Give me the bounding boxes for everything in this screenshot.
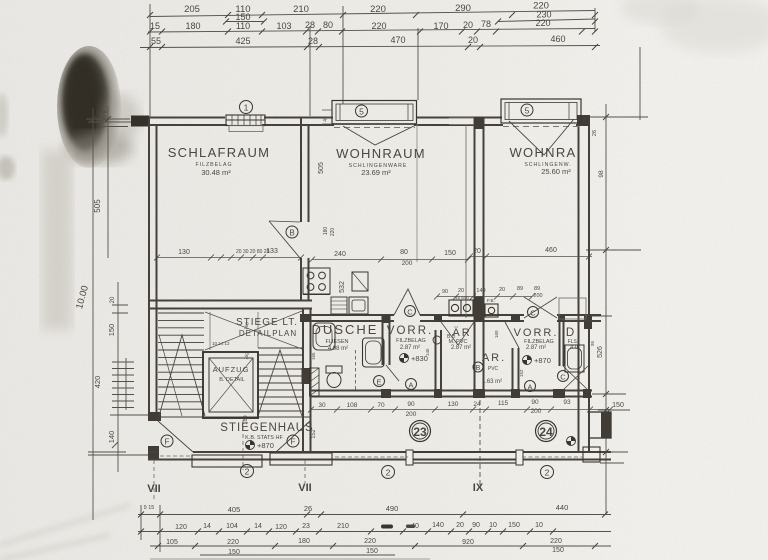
- left edge gray marks: [0, 93, 8, 137]
- window w3 number circle 5: [521, 104, 533, 116]
- svg-text:2: 2: [545, 468, 550, 478]
- svg-text:F.B.: F.B.: [487, 298, 495, 303]
- svg-text:205: 205: [184, 4, 200, 15]
- dim line row1b segment left: [226, 21, 264, 23]
- svg-text:200: 200: [531, 408, 542, 415]
- window w3 door swing: [509, 119, 574, 155]
- svg-text:SCHLAFRAUM: SCHLAFRAUM: [168, 145, 271, 160]
- vorr2 door swing from wohnra: [524, 297, 557, 318]
- party wall right line: [483, 117, 485, 396]
- bottom wall inner line: [148, 451, 611, 453]
- svg-text:10: 10: [535, 522, 543, 529]
- svg-text:2: 2: [386, 468, 391, 478]
- svg-text:420: 420: [93, 376, 102, 389]
- svg-text:C: C: [407, 308, 413, 317]
- svg-text:C: C: [530, 309, 536, 318]
- svg-text:24: 24: [539, 425, 553, 439]
- tick cross y452: [88, 442, 126, 452]
- window w2: [332, 101, 417, 125]
- svg-text:F: F: [291, 438, 296, 447]
- svg-text:210: 210: [337, 523, 349, 530]
- svg-text:120: 120: [275, 524, 287, 531]
- svg-text:90: 90: [442, 289, 448, 295]
- mid dim row over washers: [434, 294, 535, 300]
- mid wall H3 lower line: [310, 396, 592, 398]
- svg-text:180: 180: [298, 538, 310, 545]
- svg-text:A: A: [527, 383, 532, 392]
- tiny rotated dims middle rooms: [311, 330, 595, 377]
- ext line y394 right: [592, 393, 626, 395]
- svg-text:120: 120: [175, 524, 187, 531]
- schlafraum dim line: [154, 255, 304, 261]
- ar door swing: [505, 322, 519, 348]
- tick cross y126 short: [100, 126, 128, 128]
- svg-text:IX: IX: [473, 482, 484, 494]
- svg-text:10: 10: [489, 522, 497, 529]
- fridge box: [352, 272, 368, 291]
- dim line row1b segment right: [498, 19, 595, 22]
- right wall outer line: [588, 115, 590, 452]
- ext line y452 right: [611, 451, 628, 453]
- svg-text:VII: VII: [298, 482, 311, 494]
- bottom dim line rowD partial: [200, 554, 395, 556]
- dark smear marks rowB: [381, 525, 393, 529]
- svg-text:20: 20: [468, 35, 478, 45]
- party wall mid block: [474, 296, 485, 322]
- wall V7 vorr2-d inner: [563, 319, 565, 366]
- counter edge line: [303, 294, 330, 296]
- party wall inner thin line x466: [465, 125, 467, 318]
- junction dark blocks along H2/H3: [300, 314, 591, 398]
- shower tray in D: [565, 345, 584, 372]
- svg-text:14: 14: [254, 523, 262, 530]
- ext line y410 right tick: [598, 409, 630, 411]
- svg-text:526: 526: [597, 346, 604, 358]
- top wall inner line: [132, 124, 590, 126]
- svg-text:20: 20: [473, 248, 481, 255]
- svg-text:14: 14: [203, 523, 211, 530]
- svg-text:210: 210: [293, 4, 309, 15]
- svg-text:90: 90: [407, 401, 415, 408]
- svg-text:B.D: B.D: [447, 334, 456, 340]
- interior wall V1 outer: [300, 117, 302, 301]
- left wall outer line: [148, 118, 150, 422]
- left dim vline x118: [117, 282, 119, 472]
- svg-text:2.87 m²: 2.87 m²: [400, 345, 420, 351]
- svg-text:1: 1: [244, 103, 249, 113]
- stair landing diagonals: [205, 311, 302, 350]
- stiege right wall inner: [310, 308, 312, 452]
- aer door diagonals: [441, 322, 474, 345]
- svg-text:10 14 12: 10 14 12: [212, 341, 230, 346]
- wall V3 duschevorr inner: [389, 320, 391, 365]
- svg-text:STIEGENHAUS: STIEGENHAUS: [220, 422, 313, 434]
- svg-text:920: 920: [462, 539, 474, 546]
- svg-text:+870: +870: [534, 356, 551, 365]
- svg-text:108: 108: [347, 402, 358, 409]
- wall V3 duschevorr outer: [382, 320, 384, 365]
- svg-text:220: 220: [370, 4, 386, 15]
- column extension line x640: [639, 47, 641, 120]
- svg-text:DUSCHE: DUSCHE: [312, 322, 379, 337]
- window w3: [501, 99, 581, 123]
- stove box: [303, 268, 330, 294]
- svg-text:133: 133: [266, 248, 278, 255]
- left wall bottom corner block: [148, 446, 159, 459]
- counter hatched box: [331, 297, 347, 314]
- svg-text:200: 200: [402, 260, 413, 267]
- svg-text:AUFZUG: AUFZUG: [213, 365, 250, 374]
- svg-text:WOHNRAUM: WOHNRAUM: [336, 146, 426, 161]
- circled C vorr2-d: [558, 371, 569, 382]
- svg-text:220: 220: [371, 21, 386, 31]
- svg-text:290: 290: [455, 3, 471, 14]
- svg-text:80: 80: [323, 20, 333, 30]
- wohnraum dim line: [309, 257, 471, 263]
- stair direction triangle left: [159, 335, 205, 416]
- party wall head block: [474, 117, 485, 129]
- svg-text:470: 470: [390, 35, 405, 45]
- window w3 dashed sill: [503, 126, 579, 128]
- top wall left end cap: [131, 117, 133, 126]
- circled F left: [161, 435, 173, 447]
- circled A vorr2: [525, 381, 536, 392]
- svg-text:5: 5: [359, 107, 364, 117]
- level mark stiegenhaus: [246, 441, 274, 451]
- top wall outer line: [132, 117, 590, 119]
- niche outline above D room: [559, 298, 586, 319]
- mid wall H2 upper line: [300, 314, 601, 316]
- column extension line x595: [594, 8, 596, 32]
- svg-text:130: 130: [178, 249, 190, 256]
- bottom dim line rowC: [150, 545, 611, 547]
- svg-text:200: 200: [533, 293, 542, 299]
- right ticks: [603, 114, 609, 455]
- left wall inner line: [156, 125, 158, 421]
- svg-text:90: 90: [531, 399, 539, 406]
- dashed divider dusche: [355, 350, 357, 391]
- apartment number circle 24: [536, 421, 557, 442]
- svg-text:55: 55: [151, 36, 161, 46]
- bottom ticks rowB: [138, 529, 556, 535]
- stiege right wall outer: [302, 308, 304, 452]
- svg-text:140: 140: [432, 522, 444, 529]
- svg-text:26: 26: [592, 130, 598, 136]
- bathtub left horizontal: [313, 323, 335, 350]
- stair box bottom line: [157, 416, 310, 418]
- svg-text:20 8: 20 8: [103, 110, 109, 122]
- mid wall H3 upper line: [310, 390, 592, 392]
- mid wall H2 lower line: [300, 320, 601, 322]
- svg-text:25.60 m²: 25.60 m²: [541, 167, 571, 176]
- circled A vorr1: [406, 379, 417, 390]
- svg-text:78: 78: [481, 19, 491, 29]
- svg-text:152: 152: [311, 429, 317, 438]
- svg-text:405: 405: [228, 505, 241, 514]
- level mark vorr2: [523, 356, 551, 366]
- svg-text:220: 220: [227, 539, 239, 546]
- svg-text:200: 200: [406, 411, 417, 418]
- ext line y250 right: [586, 249, 641, 251]
- svg-text:95: 95: [590, 340, 595, 346]
- svg-text:89: 89: [517, 286, 523, 292]
- svg-text:220: 220: [535, 18, 550, 28]
- thin line under top wall gap x449-474: [449, 117, 474, 119]
- wall V7 vorr2-d outer: [559, 319, 561, 366]
- stiege right wall dark block: [302, 368, 312, 384]
- column extension line x310: [309, 26, 311, 116]
- svg-text:150: 150: [444, 250, 456, 257]
- washer single box: [485, 304, 498, 317]
- wohnra dim line: [467, 254, 592, 260]
- svg-text:220: 220: [364, 538, 376, 545]
- svg-text:505: 505: [318, 162, 325, 174]
- circled C above vorr1: [405, 306, 416, 317]
- svg-text:104: 104: [226, 523, 238, 530]
- bottom dim texts rowA: [144, 503, 569, 514]
- vorr1 door swing from wohnraum: [394, 289, 420, 315]
- svg-text:FLIESEN: FLIESEN: [326, 339, 349, 345]
- dashed line x243: [242, 420, 244, 470]
- bottom ticks rowC: [155, 543, 598, 549]
- svg-text:30: 30: [318, 402, 326, 409]
- ext line y316 right: [592, 315, 612, 317]
- window w1: [226, 115, 265, 132]
- svg-text:+870: +870: [257, 441, 274, 450]
- svg-text:150: 150: [552, 547, 564, 554]
- left dim vline x93: [92, 108, 94, 520]
- svg-text:180: 180: [323, 227, 329, 236]
- circled C above vorr2: [528, 307, 539, 318]
- left dim vline x108: [107, 106, 109, 258]
- svg-text:140: 140: [476, 288, 485, 294]
- right corner slab: [583, 447, 600, 462]
- row2 ticks: [147, 29, 598, 35]
- top-right mottling: [660, 0, 768, 53]
- svg-text:532: 532: [339, 281, 346, 293]
- svg-text:2.87 m²: 2.87 m²: [451, 345, 471, 351]
- svg-text:VORR.: VORR.: [514, 327, 559, 339]
- svg-text:28: 28: [308, 36, 318, 46]
- mid wall H1 inner: [148, 308, 312, 310]
- svg-text:152: 152: [519, 369, 524, 377]
- tiny stair numbers column: [212, 321, 250, 360]
- svg-text:28: 28: [305, 20, 315, 30]
- svg-text:130: 130: [448, 401, 459, 408]
- stair direction triangle right: [258, 350, 302, 416]
- svg-text:FILZBELAG: FILZBELAG: [396, 338, 426, 344]
- column extension line x150: [149, 4, 151, 117]
- aufzug outer box: [203, 352, 258, 418]
- tick cross y415: [110, 414, 150, 416]
- svg-text:AR.: AR.: [482, 352, 506, 364]
- dashed threshold lines bottom wall: [160, 456, 582, 457]
- dusche door swing: [386, 365, 399, 381]
- dashed section line x480: [479, 400, 481, 487]
- level mark corridor right: [567, 437, 576, 446]
- scan smudge blob left edge: [0, 46, 140, 330]
- dim line row2: [148, 29, 595, 33]
- svg-text:D: D: [566, 327, 576, 339]
- svg-text:490: 490: [386, 504, 399, 513]
- wall V6 ar-vorr2 inner: [518, 348, 520, 394]
- party wall left line: [474, 117, 476, 396]
- svg-text:105: 105: [166, 539, 178, 546]
- svg-text:425: 425: [235, 36, 250, 46]
- svg-text:220: 220: [550, 538, 562, 545]
- right wall inner line: [578, 117, 580, 452]
- svg-text:70: 70: [377, 402, 385, 409]
- balcony slab big right: [406, 450, 523, 465]
- interior wall V1 inner: [308, 125, 310, 301]
- svg-text:VORR.: VORR.: [387, 325, 433, 337]
- svg-text:240: 240: [334, 251, 346, 258]
- svg-text:23: 23: [413, 425, 427, 439]
- svg-text:20: 20: [458, 288, 464, 294]
- svg-text:B: B: [289, 229, 294, 238]
- svg-text:460: 460: [550, 34, 565, 44]
- aufzug diagonals: [209, 358, 253, 412]
- ext line y462 right: [600, 462, 624, 464]
- svg-text:180: 180: [243, 415, 249, 424]
- svg-text:20: 20: [110, 296, 116, 303]
- row3 ticks: [147, 44, 598, 50]
- mid wall H1 outer: [148, 300, 312, 302]
- wall V4a vorr-aer inner: [440, 330, 442, 396]
- d door swing: [563, 366, 588, 390]
- ext line y118 right: [589, 116, 648, 118]
- ladder dim ticks beside stair: [125, 358, 127, 410]
- svg-text:220: 220: [330, 228, 336, 237]
- svg-text:2: 2: [245, 467, 250, 477]
- svg-text:93: 93: [563, 399, 571, 406]
- bottom ticks rowA: [138, 512, 608, 518]
- top dim text row3: [151, 34, 566, 46]
- svg-text:150: 150: [366, 548, 378, 555]
- wall V3 top block: [382, 315, 391, 323]
- svg-text:45: 45: [323, 116, 329, 122]
- top dim text row2: [150, 18, 551, 31]
- svg-text:E: E: [376, 378, 381, 387]
- circled E dusche: [374, 376, 385, 387]
- svg-text:460: 460: [545, 247, 557, 254]
- svg-text:103: 103: [276, 21, 291, 31]
- svg-text:9 15: 9 15: [144, 505, 155, 511]
- svg-text:F: F: [165, 438, 170, 447]
- schlafraum door swing: [269, 221, 300, 258]
- bottom wall outer line: [148, 459, 611, 461]
- bathtub: [363, 338, 385, 367]
- svg-text:90: 90: [472, 522, 480, 529]
- svg-text:170: 170: [433, 21, 448, 31]
- window w2 door swing: [343, 125, 416, 145]
- svg-text:23.69 m²: 23.69 m²: [361, 168, 391, 177]
- shaft hatched: [310, 368, 320, 396]
- svg-text:150: 150: [612, 402, 624, 409]
- bottom left vline x160: [159, 505, 161, 552]
- extension line y122 left: [88, 121, 148, 123]
- svg-text:160: 160: [494, 330, 499, 338]
- circled 2 mid: [382, 466, 395, 479]
- svg-text:VII: VII: [147, 483, 160, 495]
- tick cross y305: [112, 305, 128, 313]
- left rotated dim texts: [74, 110, 116, 444]
- wall V6 ar-vorr2 outer: [512, 348, 514, 394]
- mid dim row texts: [442, 286, 543, 299]
- corridor dim texts: [318, 399, 571, 418]
- toilet: [326, 366, 342, 388]
- svg-text:150: 150: [508, 522, 520, 529]
- svg-text:89: 89: [534, 286, 540, 292]
- right wall bump rect lower: [589, 412, 611, 438]
- svg-text:165: 165: [311, 352, 316, 360]
- stair treads left flight: [158, 313, 204, 409]
- svg-text:505: 505: [93, 199, 102, 213]
- dashed vline x154 below: [153, 460, 155, 500]
- corridor dim line y408: [308, 407, 613, 413]
- svg-text:C: C: [560, 373, 566, 382]
- svg-text:WOHNRA: WOHNRA: [509, 145, 576, 160]
- bottom dim texts rowC: [166, 538, 564, 556]
- dim line row3: [140, 46, 600, 48]
- stair treads right flight: [258, 348, 302, 411]
- window w2 number circle 5: [356, 105, 368, 117]
- svg-text:1.63 m²: 1.63 m²: [482, 379, 502, 385]
- bottom dim line rowA: [138, 514, 611, 516]
- row1b ticks: [223, 19, 598, 25]
- tick slashes on top dim lines: [147, 12, 598, 50]
- svg-text:150: 150: [228, 549, 240, 556]
- svg-text:2.87 m²: 2.87 m²: [526, 345, 546, 351]
- circled letter on V4a wall: [433, 336, 441, 344]
- balcony slab left1: [192, 455, 262, 467]
- svg-text:20: 20: [499, 287, 505, 293]
- faint bottom edge line: [150, 558, 430, 560]
- circled B near aer wall: [473, 362, 483, 372]
- bottom left vline x141: [140, 505, 142, 540]
- stiege door swing right: [276, 421, 310, 452]
- level mark vorr1: [400, 354, 428, 364]
- svg-text:140: 140: [107, 431, 116, 444]
- dashed vline x305 below: [304, 460, 306, 483]
- svg-text:20 30 20 80 20: 20 30 20 80 20: [236, 249, 270, 255]
- column extension line x418: [417, 28, 419, 100]
- svg-text:15: 15: [150, 21, 160, 31]
- dim line row1: [150, 11, 595, 17]
- svg-text:20: 20: [456, 522, 464, 529]
- circled 2 left: [241, 465, 254, 478]
- balcony slab left2: [270, 453, 332, 465]
- right rotated dim texts: [592, 130, 624, 409]
- svg-text:98: 98: [598, 170, 605, 178]
- svg-text:80: 80: [400, 249, 408, 256]
- aufzug inner box: [209, 358, 253, 412]
- right dim vline x606: [605, 104, 607, 515]
- circled F right: [287, 435, 299, 447]
- svg-text:23: 23: [302, 523, 310, 530]
- apartment number circle 23: [410, 421, 431, 442]
- washer boxes pair: [449, 300, 473, 316]
- svg-text:5: 5: [525, 106, 530, 116]
- svg-text:B. DETAIL: B. DETAIL: [219, 377, 245, 383]
- circled 2 right: [541, 466, 554, 479]
- small ticks left of window w2: [322, 110, 332, 124]
- window w1 number circle 1: [240, 101, 253, 114]
- svg-text:440: 440: [556, 503, 569, 512]
- window w2 right extension thin vline: [416, 124, 418, 262]
- column extension line x343: [342, 6, 344, 104]
- svg-text:26: 26: [304, 504, 312, 513]
